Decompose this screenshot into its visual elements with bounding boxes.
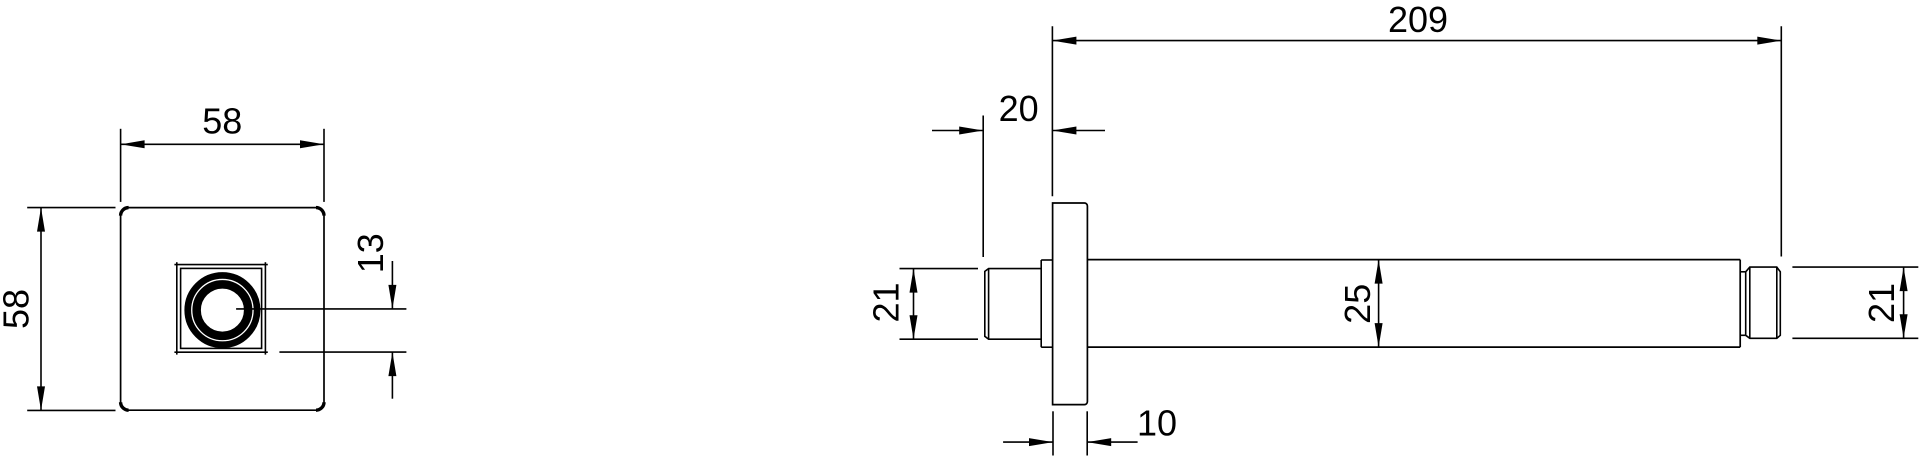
svg-text:10: 10 <box>1137 402 1177 443</box>
svg-text:21: 21 <box>1861 283 1902 323</box>
svg-text:58: 58 <box>0 289 37 329</box>
svg-text:209: 209 <box>1388 0 1448 40</box>
svg-text:13: 13 <box>350 233 391 273</box>
svg-text:25: 25 <box>1337 284 1378 324</box>
svg-text:20: 20 <box>999 88 1039 129</box>
svg-text:21: 21 <box>866 282 907 322</box>
svg-text:58: 58 <box>202 101 242 142</box>
